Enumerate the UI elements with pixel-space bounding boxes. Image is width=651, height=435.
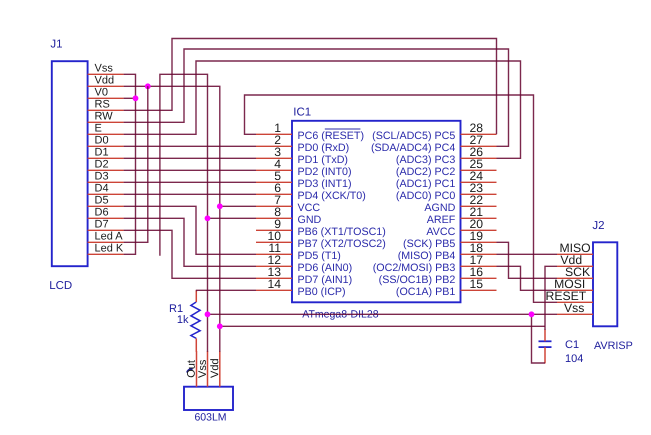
IC1 pin 26 stub [461, 157, 497, 159]
node Vdd branch junction [145, 83, 151, 89]
svg-text:15: 15 [470, 277, 484, 291]
svg-text:(MISO) PB4: (MISO) PB4 [398, 250, 456, 262]
svg-text:GND: GND [298, 214, 322, 226]
svg-text:PD1 (TxD): PD1 (TxD) [298, 154, 348, 166]
svg-text:(SDA/ADC4) PC4: (SDA/ADC4) PC4 [371, 142, 455, 154]
J1 pin E stub [88, 133, 124, 135]
node V0-Vss junction [133, 95, 139, 101]
IC1 pin 7 stub [256, 205, 292, 207]
wire RW to PC4 [124, 49, 509, 146]
wire J2 Vdd branch down to C1 [545, 266, 557, 330]
IC1 pin 11 stub [256, 253, 292, 255]
svg-text:(ADC2) PC2: (ADC2) PC2 [396, 166, 455, 178]
IC1 pin 9 stub [256, 229, 292, 231]
svg-text:PD7 (AIN1): PD7 (AIN1) [298, 274, 353, 286]
svg-text:J1: J1 [50, 39, 62, 51]
IC1 pin 17 stub [461, 265, 497, 267]
wire D6 to PD6 [124, 218, 256, 266]
J1 pin V0 stub [88, 97, 124, 99]
connector J2 box [593, 242, 617, 326]
IC1 pin 13 stub [256, 277, 292, 279]
R1 bottom pin to 603LM Out [195, 338, 197, 351]
svg-text:(SCK) PB5: (SCK) PB5 [403, 238, 455, 250]
svg-text:(OC2/MOSI) PB3: (OC2/MOSI) PB3 [373, 262, 456, 274]
svg-text:Led K: Led K [95, 243, 124, 255]
C1 top pin [544, 330, 546, 342]
component U2 box 603LM [184, 387, 233, 410]
J2 pin Vdd stub [557, 265, 593, 267]
connector J1 box [52, 61, 88, 266]
svg-text:(OC1A) PB1: (OC1A) PB1 [396, 286, 455, 298]
IC1 pin 19 stub [461, 241, 497, 243]
wire Vss row J1 to Led K [124, 74, 136, 254]
IC1 pin 22 stub [461, 205, 497, 207]
svg-text:D2: D2 [95, 159, 109, 171]
svg-text:PC6 (RESET): PC6 (RESET) [298, 130, 365, 142]
wire RS to PC5 [124, 39, 497, 135]
svg-text:D4: D4 [95, 183, 109, 195]
IC1 pin 15 stub [461, 289, 497, 291]
IC1 pin 2 stub [256, 145, 292, 147]
svg-text:14: 14 [267, 277, 281, 291]
R1 top pin [195, 290, 197, 302]
IC1 pin 27 stub [461, 145, 497, 147]
J1 pin D6 stub [88, 217, 124, 219]
svg-text:PB6 (XT1/TOSC1): PB6 (XT1/TOSC1) [298, 226, 386, 238]
J1 pin Led A stub [88, 241, 124, 243]
svg-text:PB0 (ICP): PB0 (ICP) [298, 286, 346, 298]
IC1 pin 25 stub [461, 169, 497, 171]
wire D4 to PD4 [124, 193, 256, 195]
svg-text:(ADC0) PC0: (ADC0) PC0 [396, 190, 455, 202]
svg-text:PD4 (XCK/T0): PD4 (XCK/T0) [298, 190, 366, 202]
wire D0 to PD0 [124, 145, 256, 147]
J1 pin D0 stub [88, 145, 124, 147]
J2 pin Vss stub [557, 313, 593, 315]
svg-text:J2: J2 [592, 220, 604, 232]
IC1 pin 3 stub [256, 157, 292, 159]
J1 pin Vdd stub [88, 85, 124, 87]
J1 pin Vss stub [88, 73, 124, 75]
wire C1 bottom loop to Vss rail [532, 314, 546, 363]
wire MISO PB4 to J2 [497, 253, 558, 255]
svg-text:(ADC3) PC3: (ADC3) PC3 [396, 154, 455, 166]
svg-text:PD3 (INT1): PD3 (INT1) [298, 178, 352, 190]
wire D3 to PD3 [124, 181, 256, 183]
J1 pin RS stub [88, 109, 124, 111]
IC1 pin 5 stub [256, 181, 292, 183]
603LM pin label Vdd [210, 359, 218, 378]
wire Vdd row down to 603LM Vdd [124, 86, 220, 352]
J1 pin D2 stub [88, 169, 124, 171]
IC1 pin 28 stub [461, 133, 497, 135]
wire D1 to PD1 [124, 157, 256, 159]
svg-text:V0: V0 [95, 87, 108, 99]
svg-text:RW: RW [95, 111, 114, 123]
svg-text:PD0 (RxD): PD0 (RxD) [298, 142, 350, 154]
svg-text:LCD: LCD [49, 280, 72, 292]
J2 pin MOSI stub [557, 289, 593, 291]
svg-text:D3: D3 [95, 171, 109, 183]
node C1-Vss junction [529, 311, 535, 317]
wire E to PC3 [124, 61, 521, 158]
C1 bottom pin [544, 347, 546, 363]
J1 pin D5 stub [88, 205, 124, 207]
node VCC junction [217, 203, 223, 209]
IC1 pin 10 stub [256, 241, 292, 243]
J2 pin SCK stub [557, 277, 593, 279]
svg-text:D7: D7 [95, 219, 109, 231]
J2 pin MISO stub [557, 253, 593, 255]
IC1 pin 1 stub [256, 133, 292, 135]
IC1 pin 18 stub [461, 253, 497, 255]
svg-text:PD6 (AIN0): PD6 (AIN0) [298, 262, 353, 274]
wire D7 to PD7 [124, 230, 256, 278]
resistor R1 zigzag [191, 302, 200, 338]
svg-text:PD5 (T1): PD5 (T1) [298, 250, 341, 262]
wire VCC branch to IC1 pin 7 [220, 205, 256, 207]
wire GND to IC1 pin 8 [208, 217, 257, 219]
svg-text:RS: RS [95, 99, 110, 111]
svg-text:(ADC1) PC1: (ADC1) PC1 [396, 178, 455, 190]
J1 pin D1 stub [88, 157, 124, 159]
603LM pin Out stub [196, 351, 198, 387]
svg-text:PB7 (XT2/TOSC2): PB7 (XT2/TOSC2) [298, 238, 386, 250]
svg-text:IC1: IC1 [293, 106, 311, 118]
wire D5 to PD5 [124, 206, 256, 254]
svg-text:1k: 1k [177, 314, 189, 326]
wire Vdd rail bottom [220, 325, 545, 327]
node Vdd rail junction [217, 323, 223, 329]
IC1 pin 24 stub [461, 181, 497, 183]
IC1 pin 16 stub [461, 277, 497, 279]
wire Vdd branch to Led A [124, 86, 148, 242]
node GND pin8 junction [205, 215, 211, 221]
IC IC1 box [292, 121, 461, 302]
svg-text:D0: D0 [95, 135, 109, 147]
IC1 pin 21 stub [461, 217, 497, 219]
svg-text:(SS/OC1B) PB2: (SS/OC1B) PB2 [379, 274, 456, 286]
svg-text:603LM: 603LM [194, 411, 226, 423]
IC1 pin 4 stub [256, 169, 292, 171]
node Vss rail junction [205, 311, 211, 317]
wire D2 to PD2 [124, 169, 256, 171]
603LM pin Vss stub [207, 351, 209, 387]
wire PB0 to R1 [197, 290, 257, 291]
svg-text:D6: D6 [95, 207, 109, 219]
capacitor C1 plates [539, 341, 552, 347]
svg-text:Vss: Vss [564, 301, 584, 315]
svg-text:(SCL/ADC5) PC5: (SCL/ADC5) PC5 [372, 130, 455, 142]
wire GND bridge over bundle [160, 74, 208, 352]
svg-text:PD2 (INT0): PD2 (INT0) [298, 166, 352, 178]
IC1 pin 14 stub [256, 289, 292, 291]
svg-text:Vss: Vss [95, 63, 114, 75]
wire SCK PB5 to J2 [497, 242, 558, 278]
wire RESET PC6 to J2 [245, 95, 558, 302]
overline RESET on IC1 pin 1 [325, 128, 361, 130]
J1 pin Led K stub [88, 253, 124, 255]
IC1 pin 20 stub [461, 229, 497, 231]
IC1 pin 23 stub [461, 193, 497, 195]
svg-text:AVCC: AVCC [426, 226, 455, 238]
J1 pin RW stub [88, 121, 124, 123]
svg-text:E: E [95, 123, 102, 135]
wire V0 to Vss net [124, 97, 136, 99]
svg-text:Vdd: Vdd [95, 75, 115, 87]
svg-text:Led A: Led A [95, 231, 124, 243]
J1 pin D4 stub [88, 193, 124, 195]
svg-text:AVRISP: AVRISP [594, 340, 633, 352]
IC1 pin 6 stub [256, 193, 292, 195]
J1 pin D7 stub [88, 229, 124, 231]
wire MOSI PB3 to J2 [497, 266, 558, 290]
603LM pin Vdd stub [219, 351, 221, 387]
svg-text:D5: D5 [95, 195, 109, 207]
svg-text:104: 104 [565, 353, 583, 365]
J1 pin D3 stub [88, 181, 124, 183]
IC1 pin 12 stub [256, 265, 292, 267]
603LM pin label Out [187, 369, 193, 372]
svg-text:AGND: AGND [424, 202, 455, 214]
wire Vss rail bottom [208, 313, 558, 315]
svg-text:C1: C1 [565, 339, 579, 351]
603LM pin label Vss [198, 360, 206, 378]
J2 pin RESET stub [557, 301, 593, 303]
svg-text:VCC: VCC [298, 202, 321, 214]
svg-text:D1: D1 [95, 147, 109, 159]
IC1 pin 8 stub [256, 217, 292, 219]
svg-text:AREF: AREF [427, 214, 456, 226]
